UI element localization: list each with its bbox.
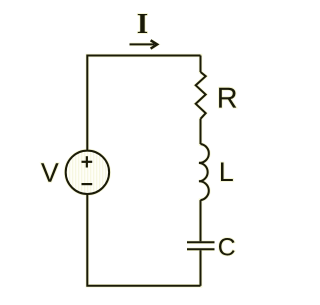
voltage source V circle <box>66 151 109 194</box>
plus sign inside source <box>82 156 93 167</box>
wire: capacitor to bottom rail <box>200 250 202 286</box>
pale halo under-fills (labels) <box>41 14 236 256</box>
wire: right drop into resistor <box>200 56 202 73</box>
wire: left vertical upper + top rail <box>87 56 200 151</box>
wire: bottom rail + left vertical lower <box>87 194 200 286</box>
inductor L <box>199 144 209 200</box>
capacitor C bottom plate <box>187 248 215 250</box>
label V <box>41 163 59 181</box>
wire: resistor to inductor <box>200 119 202 144</box>
label I <box>138 14 147 33</box>
capacitor C top plate <box>187 241 215 243</box>
pale halo under-strokes (wires and components) <box>66 40 215 285</box>
minus sign inside source <box>82 183 93 185</box>
label R <box>219 88 236 108</box>
label L <box>221 163 233 182</box>
label C <box>219 238 235 256</box>
current arrow <box>130 40 158 48</box>
wire: inductor to capacitor <box>200 200 202 241</box>
resistor R <box>196 72 206 119</box>
